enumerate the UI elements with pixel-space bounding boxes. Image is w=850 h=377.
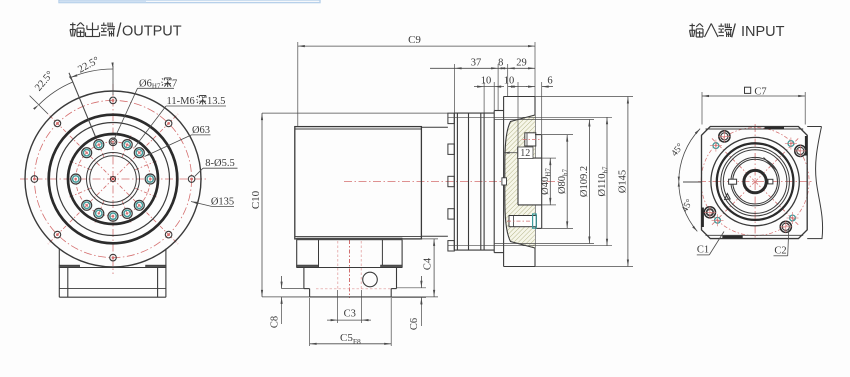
svg-text:Ø63: Ø63: [192, 125, 210, 136]
svg-text:C3: C3: [344, 309, 356, 320]
svg-text:Ø145: Ø145: [618, 170, 629, 193]
svg-text:29: 29: [516, 57, 527, 68]
svg-text:C2: C2: [774, 245, 786, 256]
svg-text:Ø109.2: Ø109.2: [579, 166, 590, 197]
svg-text:10: 10: [481, 75, 492, 86]
svg-text:7: 7: [172, 79, 177, 90]
svg-text:C1: C1: [697, 244, 709, 255]
svg-text:37: 37: [471, 57, 482, 68]
svg-text:10: 10: [504, 75, 515, 86]
svg-text:6: 6: [547, 75, 552, 86]
svg-text:13.5: 13.5: [207, 96, 225, 107]
svg-text:C8: C8: [270, 316, 281, 328]
svg-text:OUTPUT: OUTPUT: [122, 24, 182, 40]
svg-text:12: 12: [520, 148, 530, 159]
svg-text:8-Ø5.5: 8-Ø5.5: [205, 158, 234, 169]
svg-text:11-M6: 11-M6: [167, 96, 195, 107]
svg-text:C9: C9: [408, 34, 421, 46]
svg-text:C7: C7: [754, 86, 766, 97]
svg-text:8: 8: [498, 57, 503, 68]
svg-text:C6: C6: [409, 318, 420, 330]
svg-text:INPUT: INPUT: [741, 24, 785, 40]
svg-text:Ø135: Ø135: [211, 196, 234, 207]
svg-text:C4: C4: [423, 257, 434, 270]
svg-text:C10: C10: [250, 190, 262, 209]
